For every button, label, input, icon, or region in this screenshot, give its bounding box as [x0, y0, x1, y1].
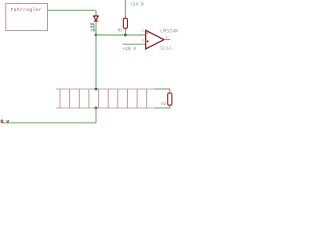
svg-text:R2: R2 — [161, 103, 166, 107]
junction dot ladder bottom — [95, 107, 98, 110]
node A junction dot — [95, 34, 98, 37]
output pin 1 — [164, 39, 171, 41]
svg-text:2: 2 — [141, 29, 144, 33]
resistor ladder RN1 top rail — [56, 88, 155, 90]
svg-text:+20 V: +20 V — [122, 46, 136, 52]
junction dot under R1 — [124, 34, 127, 37]
svg-text:R1: R1 — [118, 30, 122, 34]
svg-text:LM324N: LM324N — [160, 29, 178, 35]
svg-text:Fahrregler: Fahrregler — [11, 7, 42, 13]
resistor R1 labels — [118, 29, 122, 34]
resistor R1 — [123, 14, 127, 33]
wire node A down to ladder top — [95, 35, 97, 89]
+24V net wire — [124, 0, 126, 14]
svg-text:3: 3 — [142, 40, 145, 44]
svg-text:+24 V: +24 V — [130, 1, 144, 7]
minus symbol — [147, 32, 149, 34]
svg-text:IC1A: IC1A — [160, 46, 171, 52]
wire ladder bottom to resistor R2 — [155, 107, 170, 109]
resistor R2 — [167, 89, 172, 108]
wire from Fahrregler box to node A column — [48, 9, 97, 11]
resistor ladder RN1 bars — [60, 89, 147, 108]
diode D1 label — [91, 23, 95, 31]
junction dot ladder top — [95, 88, 98, 91]
op-amp IC1A — [146, 30, 171, 49]
wire op-amp pin 3 — [123, 43, 144, 45]
wire ladder bottom down to 0V rail — [95, 108, 97, 123]
resistor ladder RN1 bottom rail — [56, 107, 155, 109]
plus symbol — [147, 40, 149, 42]
0V rail wire — [2, 122, 96, 124]
Fahrregler box — [6, 4, 48, 31]
wire ladder top to resistor R2 — [155, 88, 168, 90]
wire diode to node A — [95, 22, 97, 35]
wire node A to op-amp pin 2 — [96, 34, 144, 36]
diode D1 (zener, cathode down) — [93, 16, 98, 22]
0 V supply label — [1, 120, 9, 123]
wire down to diode D1 — [95, 10, 97, 15]
